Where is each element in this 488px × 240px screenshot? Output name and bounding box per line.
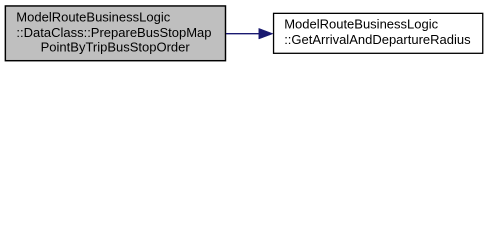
svg-text:PointByTripBusStopOrder: PointByTripBusStopOrder	[41, 39, 191, 54]
node: ModelRouteBusinessLogic::DataClass::PrepareBusStopMapPointByTripBusStopOrder (caller, grey)	[5, 6, 225, 61]
svg-text:::GetArrivalAndDepartureRadius: ::GetArrivalAndDepartureRadius	[284, 32, 471, 47]
svg-text:ModelRouteBusinessLogic: ModelRouteBusinessLogic	[16, 9, 170, 24]
wire: call edge	[226, 28, 273, 39]
node: ModelRouteBusinessLogic::GetArrivalAndDepartureRadius (callee, white)	[274, 13, 483, 53]
svg-text:ModelRouteBusinessLogic: ModelRouteBusinessLogic	[284, 17, 438, 32]
arrowhead	[259, 28, 273, 39]
svg-text:::DataClass::PrepareBusStopMap: ::DataClass::PrepareBusStopMap	[16, 25, 211, 40]
